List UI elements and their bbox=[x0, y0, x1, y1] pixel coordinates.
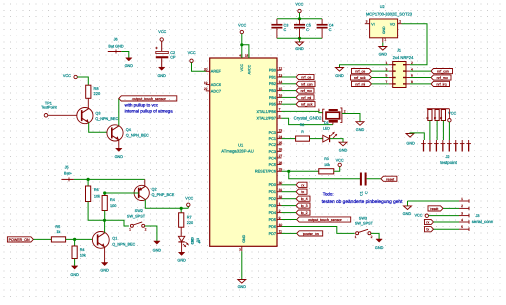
capacitor C1 bbox=[360, 173, 362, 186]
wire bbox=[48, 114, 82, 116]
svg-text:R: R bbox=[301, 130, 304, 134]
pin 4 J2 bbox=[442, 140, 444, 144]
wire bbox=[436, 121, 438, 141]
junction bbox=[87, 178, 90, 181]
pin 9 PD5 bbox=[277, 219, 282, 221]
wire bbox=[372, 77, 389, 79]
pin 10 PD6 bbox=[277, 226, 282, 228]
pin 18 AVCC top bbox=[248, 54, 250, 58]
label nrf_sck at MCU bbox=[296, 102, 315, 107]
svg-text:2: 2 bbox=[279, 209, 281, 213]
svg-text:J5: J5 bbox=[65, 165, 69, 169]
svg-text:J3: J3 bbox=[476, 214, 480, 218]
pin 7 XTAL1/PB6 bbox=[277, 110, 282, 112]
transistor Q1 Q_NPN_BEC bbox=[92, 232, 109, 249]
capacitor C3 bbox=[276, 19, 278, 24]
svg-text:PC0: PC0 bbox=[269, 131, 276, 135]
led D3 LED bbox=[178, 236, 184, 241]
wire bbox=[434, 221, 460, 223]
junction bbox=[103, 191, 106, 194]
svg-text:nrf_mo: nrf_mo bbox=[437, 76, 448, 80]
label nrf_mi at J1 bbox=[352, 81, 372, 86]
wire bbox=[180, 208, 182, 213]
wire XTAL2 to crystal gnd2 bbox=[282, 118, 333, 124]
svg-text:nrf_sck: nrf_sck bbox=[301, 103, 313, 107]
svg-text:serial_conn: serial_conn bbox=[472, 219, 494, 224]
svg-text:GND: GND bbox=[375, 246, 384, 250]
label nrf_mo at J1 bbox=[431, 75, 451, 80]
svg-text:VCC: VCC bbox=[158, 30, 166, 34]
svg-text:1: 1 bbox=[129, 228, 131, 232]
svg-text:23: 23 bbox=[279, 129, 283, 133]
svg-text:output_touch_sensor: output_touch_sensor bbox=[132, 97, 166, 101]
svg-text:XTAL1/PB6: XTAL1/PB6 bbox=[256, 110, 276, 114]
svg-text:SW3: SW3 bbox=[359, 216, 367, 220]
ground bbox=[339, 142, 347, 146]
wire bbox=[192, 63, 207, 72]
resistor R7 220 bbox=[179, 213, 184, 227]
svg-text:R4: R4 bbox=[110, 198, 115, 202]
wire GND to J1 pin1 bbox=[340, 65, 389, 68]
label nrf_mi at MCU bbox=[296, 95, 314, 100]
svg-text:1: 1 bbox=[318, 108, 320, 112]
pin 16 PB4 bbox=[277, 96, 282, 98]
pin 3 GND bottom bbox=[241, 246, 243, 251]
svg-text:GND: GND bbox=[242, 234, 246, 242]
svg-text:GND: GND bbox=[115, 155, 124, 159]
svg-text:power_on: power_on bbox=[303, 232, 319, 236]
pin 8 XTAL2/PB7 bbox=[277, 117, 282, 119]
pin 3 J3 bbox=[459, 215, 469, 217]
svg-text:PC5: PC5 bbox=[269, 163, 276, 167]
svg-text:reset: reset bbox=[430, 207, 438, 211]
wire bbox=[410, 70, 431, 72]
svg-text:CP: CP bbox=[170, 56, 176, 60]
wire bbox=[66, 238, 98, 240]
svg-text:GND: GND bbox=[157, 74, 166, 78]
svg-text:AVCC: AVCC bbox=[247, 64, 251, 74]
pin 25 PC2 bbox=[277, 144, 282, 146]
svg-text:GND: GND bbox=[177, 259, 186, 263]
svg-text:ADC6: ADC6 bbox=[211, 83, 221, 87]
svg-text:PB3: PB3 bbox=[269, 89, 276, 93]
svg-text:10k: 10k bbox=[80, 253, 86, 257]
wire cap rail bottom bbox=[277, 37, 322, 39]
wire bbox=[282, 96, 297, 98]
svg-text:GND: GND bbox=[295, 47, 304, 51]
svg-text:reset: reset bbox=[386, 177, 394, 181]
wire bbox=[299, 13, 301, 19]
wire pullup rail bbox=[427, 108, 450, 110]
ground bbox=[407, 201, 409, 206]
svg-text:AREF: AREF bbox=[211, 70, 222, 74]
pin 1 J2 bbox=[423, 140, 425, 144]
pin 4 J3 bbox=[459, 221, 469, 223]
pin 22 ADC7 bbox=[206, 90, 210, 92]
svg-text:PB2: PB2 bbox=[269, 82, 276, 86]
wire bbox=[180, 227, 182, 236]
label nrf_csn at MCU bbox=[296, 81, 315, 86]
pin 31 PD1 bbox=[277, 191, 282, 193]
pin 1 GND bbox=[382, 38, 384, 43]
ground bbox=[101, 263, 107, 266]
svg-text:2: 2 bbox=[145, 228, 147, 232]
wire bbox=[87, 179, 89, 186]
svg-text:20: 20 bbox=[204, 68, 208, 72]
svg-text:GND: GND bbox=[70, 273, 79, 277]
junction bbox=[180, 207, 183, 210]
wire bbox=[408, 200, 460, 202]
svg-text:D1: D1 bbox=[324, 121, 329, 125]
pin 1 J1 left bbox=[389, 64, 393, 66]
wire MCU ground bbox=[241, 251, 243, 279]
svg-text:Q2: Q2 bbox=[152, 187, 157, 191]
svg-text:5: 5 bbox=[461, 225, 463, 229]
svg-text:LED: LED bbox=[323, 127, 330, 131]
pin 27 PC4 bbox=[277, 157, 282, 159]
wire bbox=[87, 98, 89, 109]
svg-text:PD1: PD1 bbox=[269, 190, 276, 194]
wire bbox=[371, 233, 379, 239]
pin 11 PD7 bbox=[277, 232, 282, 234]
wire Q2 base bbox=[105, 192, 139, 194]
pin 7 J1 left bbox=[389, 83, 393, 85]
svg-text:GND: GND bbox=[238, 285, 247, 289]
svg-text:PC3: PC3 bbox=[269, 150, 276, 154]
wire bbox=[118, 140, 120, 148]
svg-text:testpoint: testpoint bbox=[440, 160, 457, 165]
transistor Q2 Q_PNP_BCE bbox=[134, 185, 149, 200]
wire bbox=[282, 205, 297, 207]
svg-text:22: 22 bbox=[204, 87, 208, 91]
pin 13 PB1 bbox=[277, 76, 282, 78]
pin 26 PC3 bbox=[277, 150, 282, 152]
wire bbox=[429, 121, 431, 141]
svg-text:MCP1700-3302E_SOT23: MCP1700-3302E_SOT23 bbox=[366, 12, 413, 17]
pin 5 J2 bbox=[448, 140, 450, 144]
wire bbox=[241, 34, 243, 58]
resistor R8 220 bbox=[86, 85, 91, 98]
pin 19 ADC6 bbox=[206, 84, 210, 86]
svg-text:nrf_mi: nrf_mi bbox=[301, 96, 311, 100]
pin 2 J1 right bbox=[406, 64, 410, 66]
wire Q1 collector bbox=[104, 220, 106, 232]
svg-text:VO: VO bbox=[390, 22, 395, 26]
svg-text:VCC: VCC bbox=[185, 196, 193, 200]
junction bbox=[298, 37, 301, 40]
svg-text:PB0: PB0 bbox=[269, 69, 276, 73]
wire bbox=[282, 138, 296, 140]
svg-text:Q_PNP_BCE: Q_PNP_BCE bbox=[152, 193, 175, 197]
svg-text:2: 2 bbox=[399, 19, 401, 23]
wire bbox=[442, 121, 444, 141]
svg-text:VCC: VCC bbox=[63, 74, 71, 78]
junction bbox=[73, 238, 76, 241]
wire bbox=[104, 211, 106, 221]
pin 3 J2 bbox=[435, 140, 437, 144]
svg-text:R6: R6 bbox=[94, 188, 99, 192]
wire bbox=[121, 52, 129, 58]
svg-text:Q4: Q4 bbox=[126, 128, 131, 132]
svg-text:PD7: PD7 bbox=[269, 232, 276, 236]
label tx at J3 bbox=[425, 227, 434, 232]
ground bbox=[376, 239, 382, 242]
pin 5 J1 left bbox=[389, 77, 393, 79]
wire crystal to gnd bbox=[342, 114, 360, 122]
junction bbox=[298, 17, 301, 20]
svg-text:4: 4 bbox=[461, 218, 463, 222]
wire bbox=[282, 212, 297, 214]
svg-text:ADC7: ADC7 bbox=[211, 89, 221, 93]
ground bbox=[178, 252, 184, 255]
pin 32 PD2 bbox=[277, 198, 282, 200]
svg-text:J1: J1 bbox=[397, 48, 401, 52]
svg-text:SW2: SW2 bbox=[135, 209, 143, 213]
wire bbox=[410, 83, 431, 85]
svg-text:28: 28 bbox=[279, 161, 283, 165]
svg-text:VI: VI bbox=[371, 22, 374, 26]
pin 4 VCC top bbox=[241, 54, 243, 58]
ground bbox=[379, 47, 387, 51]
svg-text:nrf_sck: nrf_sck bbox=[354, 76, 366, 80]
wire bbox=[282, 184, 297, 186]
svg-text:PC2: PC2 bbox=[269, 143, 276, 147]
svg-text:XTAL2/PB7: XTAL2/PB7 bbox=[256, 117, 276, 121]
svg-text:RESET/PC6: RESET/PC6 bbox=[255, 170, 276, 174]
svg-text:C4: C4 bbox=[329, 23, 334, 27]
wire VO to J1 pin2 bbox=[402, 24, 428, 65]
wire reset net bbox=[289, 171, 361, 178]
wire bbox=[299, 38, 301, 42]
resistor pack pullups bbox=[428, 110, 432, 121]
svg-text:PD0: PD0 bbox=[269, 183, 276, 187]
transistor Q3 Q_NPN_BEC bbox=[77, 108, 93, 124]
wire bbox=[429, 215, 460, 217]
pin 14 PB2 bbox=[277, 83, 282, 85]
svg-text:26: 26 bbox=[279, 148, 283, 152]
svg-text:GND: GND bbox=[406, 142, 415, 146]
pin 29 RESET/PC6 bbox=[277, 170, 282, 172]
svg-text:PD4: PD4 bbox=[269, 211, 276, 215]
wire Q4 collector to label bbox=[118, 98, 120, 125]
svg-text:Q_NPN_BEC: Q_NPN_BEC bbox=[95, 117, 118, 121]
wire bbox=[382, 43, 384, 47]
svg-text:10k: 10k bbox=[94, 195, 100, 199]
svg-text:with pullup to vcc: with pullup to vcc bbox=[125, 103, 159, 108]
label ip_3 at PD3 bbox=[296, 203, 310, 208]
wire bbox=[330, 139, 343, 143]
svg-text:Bat+: Bat+ bbox=[64, 172, 73, 176]
wire Bat+ rail bbox=[74, 178, 145, 180]
label nrf_ce at MCU bbox=[296, 74, 314, 79]
svg-text:PB1: PB1 bbox=[269, 75, 276, 79]
wire bbox=[282, 232, 297, 234]
svg-text:R2: R2 bbox=[300, 123, 305, 127]
wire bbox=[367, 178, 381, 180]
resistor R4 10k lower bbox=[74, 239, 76, 246]
svg-text:nrf_ce: nrf_ce bbox=[301, 76, 311, 80]
wire Q2 collector VCC bbox=[145, 200, 188, 209]
pin 5 J3 bbox=[459, 228, 469, 230]
wire bbox=[161, 41, 163, 51]
pin 15 PB3 bbox=[277, 90, 282, 92]
wire bbox=[282, 198, 297, 200]
wire bbox=[443, 207, 459, 209]
pin 6 J1 right bbox=[406, 77, 410, 79]
svg-text:18: 18 bbox=[245, 54, 249, 58]
wire bbox=[282, 170, 319, 172]
ground bbox=[296, 42, 304, 46]
svg-text:7: 7 bbox=[279, 108, 281, 112]
svg-text:Todo:: Todo: bbox=[323, 192, 334, 197]
svg-text:SW_SPST: SW_SPST bbox=[127, 215, 146, 219]
pin 4 J1 right bbox=[406, 70, 410, 72]
svg-text:Bat GND: Bat GND bbox=[108, 44, 123, 48]
svg-text:TestPoint: TestPoint bbox=[41, 106, 58, 110]
ground bbox=[116, 148, 122, 151]
svg-text:PD5: PD5 bbox=[269, 218, 276, 222]
svg-text:10k: 10k bbox=[324, 163, 330, 167]
pin 8 J2 bbox=[468, 140, 470, 144]
pin 2 J3 bbox=[459, 207, 469, 209]
pin 8 J1 right bbox=[406, 83, 410, 85]
wire cap rail top bbox=[277, 18, 322, 20]
svg-text:GND: GND bbox=[382, 26, 386, 34]
svg-text:ip_2: ip_2 bbox=[301, 211, 308, 215]
resistor R6 10k bbox=[86, 186, 91, 202]
svg-text:VCC: VCC bbox=[414, 214, 422, 218]
wire bbox=[448, 122, 450, 140]
wire bbox=[181, 242, 183, 252]
wire bbox=[88, 202, 129, 227]
svg-text:nrf_irq: nrf_irq bbox=[436, 82, 446, 86]
svg-text:J2: J2 bbox=[445, 155, 449, 159]
junction bbox=[240, 43, 243, 46]
pin 1 J3 bbox=[459, 200, 469, 202]
svg-text:nrf_csn: nrf_csn bbox=[301, 82, 313, 86]
svg-text:R7: R7 bbox=[187, 216, 192, 220]
junction bbox=[103, 219, 106, 222]
wire bbox=[74, 259, 76, 266]
svg-text:POWER_ON: POWER_ON bbox=[9, 238, 30, 242]
junction bbox=[287, 170, 290, 173]
label POWER_ON bbox=[7, 237, 33, 242]
svg-text:VCC: VCC bbox=[188, 51, 196, 55]
pin 23 PC0 bbox=[277, 131, 282, 133]
label rx at PD0 bbox=[296, 182, 307, 187]
svg-text:1: 1 bbox=[279, 202, 281, 206]
ground bbox=[154, 241, 160, 244]
wire bbox=[33, 238, 51, 240]
svg-text:C: C bbox=[364, 191, 368, 194]
svg-text:C2: C2 bbox=[170, 51, 175, 55]
ground bbox=[336, 68, 344, 72]
wire bbox=[242, 45, 249, 58]
svg-text:R: R bbox=[439, 117, 443, 119]
svg-text:C: C bbox=[306, 28, 309, 32]
pin 12 PB0 bbox=[277, 69, 282, 71]
svg-text:2: 2 bbox=[371, 235, 373, 239]
svg-text:nrf_csn: nrf_csn bbox=[437, 70, 449, 74]
label output_touch_sensor bbox=[119, 96, 177, 101]
svg-text:C3: C3 bbox=[284, 23, 289, 27]
svg-text:3: 3 bbox=[461, 211, 463, 215]
wire Q2 emitter bbox=[144, 179, 146, 186]
svg-text:220: 220 bbox=[94, 91, 101, 96]
svg-text:27: 27 bbox=[279, 154, 283, 158]
label power_on at PD7 bbox=[297, 231, 323, 236]
svg-text:testen ob geänderte pinbelegun: testen ob geänderte pinbelegung geht bbox=[322, 199, 403, 205]
svg-text:VCC: VCC bbox=[238, 24, 246, 28]
svg-text:19: 19 bbox=[204, 81, 208, 85]
svg-text:U1: U1 bbox=[238, 143, 244, 148]
svg-text:ATmega328P-AU: ATmega328P-AU bbox=[221, 148, 254, 153]
transistor Q4 Q_NPN_BEC bbox=[107, 125, 123, 141]
svg-text:GND: GND bbox=[356, 128, 365, 132]
svg-text:PD3: PD3 bbox=[269, 204, 276, 208]
svg-text:nrf_mi: nrf_mi bbox=[355, 82, 365, 86]
svg-text:VCC: VCC bbox=[240, 64, 244, 72]
svg-text:U2: U2 bbox=[380, 5, 385, 9]
svg-text:C5: C5 bbox=[306, 23, 311, 27]
wire bbox=[334, 167, 340, 172]
wire bbox=[282, 103, 297, 105]
svg-text:GND: GND bbox=[125, 64, 134, 68]
svg-text:PB4: PB4 bbox=[269, 96, 276, 100]
pin 24 PC1 bbox=[277, 138, 282, 140]
svg-text:PB5: PB5 bbox=[269, 103, 276, 107]
svg-text:R5: R5 bbox=[55, 225, 60, 229]
svg-text:C: C bbox=[329, 28, 332, 32]
ground bbox=[238, 280, 246, 284]
svg-text:25: 25 bbox=[279, 141, 283, 145]
wire bbox=[310, 138, 323, 140]
ground bbox=[71, 266, 77, 269]
pin 2 J2 bbox=[429, 140, 431, 144]
label nrf_csn at J1 bbox=[431, 69, 453, 74]
svg-text:PC4: PC4 bbox=[269, 156, 276, 160]
svg-text:8: 8 bbox=[279, 115, 281, 119]
svg-text:1: 1 bbox=[355, 235, 357, 239]
ic U1 ATmega328P-AU bbox=[210, 58, 277, 246]
capacitor C4 bbox=[321, 19, 323, 24]
wire XTAL1 to crystal bbox=[282, 111, 323, 112]
wire bbox=[282, 83, 297, 85]
label nrf_sck at J1 bbox=[351, 75, 372, 80]
label tx at PD1 bbox=[296, 189, 307, 194]
wire bbox=[372, 83, 389, 85]
label ip_2 at PD4 bbox=[296, 210, 310, 215]
wire bbox=[282, 219, 297, 221]
svg-text:R: R bbox=[433, 117, 437, 119]
svg-text:100: 100 bbox=[110, 204, 116, 208]
svg-text:GND: GND bbox=[335, 74, 344, 78]
svg-text:VCC: VCC bbox=[295, 3, 303, 7]
svg-text:1: 1 bbox=[461, 197, 463, 201]
capacitor C2 CP bbox=[156, 51, 169, 53]
wire bbox=[89, 123, 112, 133]
svg-text:tx: tx bbox=[426, 228, 429, 232]
wire bbox=[77, 77, 88, 85]
pin 1 PD3 bbox=[277, 205, 282, 207]
label nrf_mo at MCU bbox=[296, 88, 314, 93]
pin 7 J2 bbox=[461, 140, 463, 144]
pin 2 PD4 bbox=[277, 212, 282, 214]
svg-text:Q3: Q3 bbox=[95, 111, 100, 115]
svg-text:220: 220 bbox=[187, 221, 193, 225]
svg-text:VCC: VCC bbox=[336, 158, 344, 162]
svg-text:GND: GND bbox=[100, 269, 109, 273]
